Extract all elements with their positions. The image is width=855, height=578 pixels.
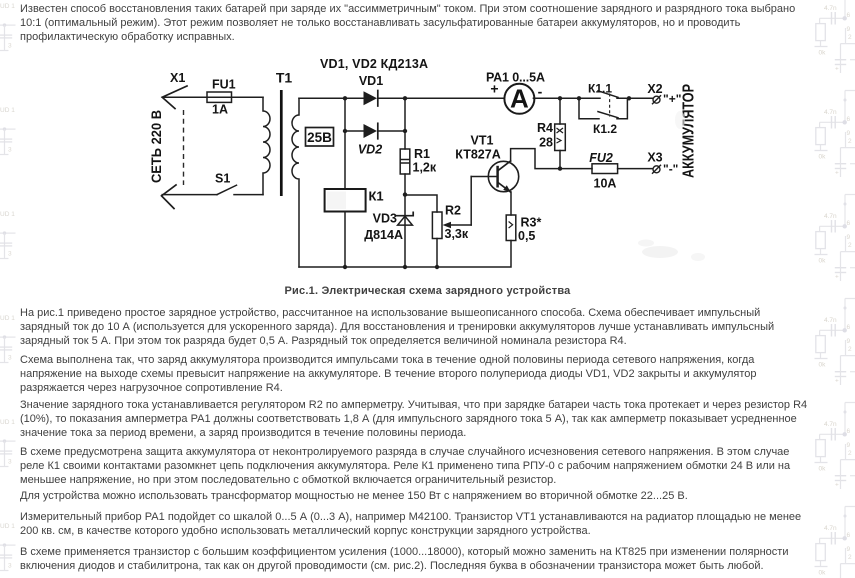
wire X1 top to fuse <box>162 96 263 98</box>
node: R4 top junction <box>558 96 562 100</box>
svg-text:А: А <box>510 84 529 114</box>
wire node to R2 top <box>405 195 437 212</box>
svg-text:3,3к: 3,3к <box>445 227 469 241</box>
wire ammeter to K1.1 <box>533 97 600 99</box>
wire VD1 to ammeter <box>378 97 505 99</box>
background pattern right strip (decorative) <box>812 0 855 578</box>
svg-text:X1: X1 <box>170 71 185 85</box>
wire to VD2 row <box>344 98 346 131</box>
node: VD3 bottom junction <box>403 265 407 269</box>
paragraph 6 <box>20 489 688 503</box>
switch S1 <box>162 172 263 195</box>
resistor R3* 0,5 <box>506 215 541 243</box>
diode VD2 <box>358 123 382 156</box>
svg-text:FU2: FU2 <box>589 151 613 165</box>
svg-text:10А: 10А <box>594 177 617 191</box>
relay contact K1.2 <box>579 98 627 136</box>
svg-text:РА1 0...5А: РА1 0...5А <box>486 71 545 85</box>
node: R2 bottom junction <box>435 265 439 269</box>
node R4 bottom <box>558 166 562 170</box>
transformer T1 core <box>280 90 283 196</box>
svg-text:FU1: FU1 <box>212 78 236 92</box>
svg-text:СЕТЬ 220 В: СЕТЬ 220 В <box>148 110 164 183</box>
svg-text:К1.2: К1.2 <box>593 122 617 136</box>
contact linkage dashed <box>609 94 611 117</box>
paragraph 5 <box>20 445 790 487</box>
paragraph 2 <box>20 306 774 348</box>
paragraph 7 <box>20 510 801 538</box>
wire R1 to VD3 node <box>404 174 406 195</box>
paragraph 1 <box>20 2 795 44</box>
zener VD3 Д814А <box>364 195 413 267</box>
svg-text:0,5: 0,5 <box>518 229 535 243</box>
node: contacts output junction <box>627 96 631 100</box>
node: VD1 cathode junction <box>403 96 407 100</box>
svg-text:VD2: VD2 <box>358 143 382 157</box>
svg-text:R3*: R3* <box>521 216 542 230</box>
terminal X2 "+" <box>647 82 681 106</box>
transformer T1 secondary winding <box>292 98 299 267</box>
plug linkage dashed line <box>183 110 185 185</box>
resistor R1 1,2к <box>400 147 437 175</box>
terminal X3 "-" <box>647 151 678 177</box>
collector wire <box>511 149 592 169</box>
ammeter PA1 0...5A <box>486 71 545 114</box>
svg-text:X2: X2 <box>647 82 662 96</box>
svg-text:28: 28 <box>539 136 553 150</box>
svg-text:1,2к: 1,2к <box>413 161 437 175</box>
wire FU2 to X3 <box>618 168 653 170</box>
terminal X1 (mains plug arrows) <box>162 71 188 209</box>
caption <box>0 285 855 297</box>
svg-text:"+": "+" <box>663 92 681 106</box>
diode VD1 <box>359 74 383 106</box>
fuse FU1 1A <box>207 78 236 117</box>
resistor R4 28 <box>537 98 565 168</box>
svg-text:Д814А: Д814А <box>364 228 403 242</box>
scan smudges (decorative) <box>327 111 705 261</box>
paragraph 8 <box>20 545 788 573</box>
svg-text:R2: R2 <box>445 204 461 218</box>
svg-text:X3: X3 <box>647 151 662 165</box>
transformer T1 primary winding <box>263 70 292 195</box>
svg-text:VD3: VD3 <box>373 212 397 226</box>
wire R2 bottom <box>436 239 438 268</box>
svg-text:1А: 1А <box>212 103 228 117</box>
transistor VT1 КТ827А <box>455 134 518 193</box>
node: K1.2 branch junction <box>577 96 581 100</box>
paragraph 3 <box>20 353 757 395</box>
svg-text:АККУМУЛЯТОР: АККУМУЛЯТОР <box>681 84 698 178</box>
svg-text:R4: R4 <box>537 121 553 135</box>
svg-text:К1.1: К1.1 <box>588 82 612 96</box>
wire down to R1 <box>404 98 406 149</box>
node: K1 bottom junction <box>343 265 347 269</box>
svg-text:КТ827А: КТ827А <box>455 148 500 162</box>
paragraph 4 <box>20 398 807 440</box>
svg-text:"-": "-" <box>663 162 678 176</box>
wire R3 to emitter <box>510 192 512 215</box>
fuse FU2 10A <box>589 151 617 191</box>
svg-text:VD1: VD1 <box>359 74 383 88</box>
potentiometer R2 3,3к <box>432 177 471 242</box>
svg-text:VD1, VD2 КД213А: VD1, VD2 КД213А <box>320 57 428 71</box>
svg-text:S1: S1 <box>215 172 230 186</box>
svg-text:25В: 25В <box>307 130 332 145</box>
top rail wire <box>299 97 364 99</box>
node: VD1 anode junction <box>343 96 347 100</box>
svg-text:VT1: VT1 <box>471 134 494 148</box>
background pattern left strip (decorative) <box>0 0 18 578</box>
svg-text:К1: К1 <box>369 189 384 204</box>
schematic: charging device <box>130 52 730 287</box>
relay contact K1.1 <box>588 82 653 99</box>
svg-text:-: - <box>538 84 543 100</box>
relay coil K1 <box>325 131 384 267</box>
wire VD2 cathode <box>378 130 405 132</box>
bottom rail <box>299 241 511 268</box>
svg-text:R1: R1 <box>414 147 430 161</box>
svg-text:Т1: Т1 <box>276 70 293 86</box>
secondary voltage label 25В <box>306 128 334 147</box>
